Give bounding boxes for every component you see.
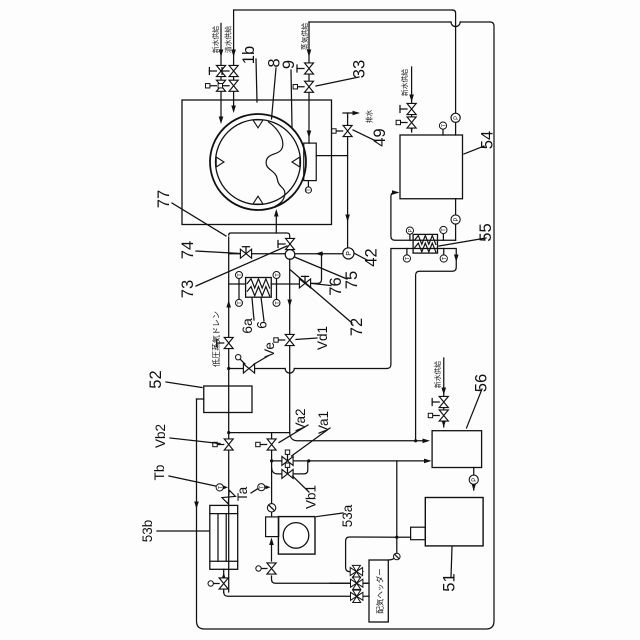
flow arrow into tank54 (409, 125, 414, 133)
wire water supply column 1 y221 (220, 23, 222, 121)
valve Vb2 (motor) (224, 439, 233, 450)
svg-text:排水: 排水 (365, 110, 374, 124)
wire condensate top line x630 (234, 9, 453, 11)
wire exchanger 55 hot pass x399.7 (391, 193, 456, 241)
exchanger 55 sensor SW (443, 249, 445, 256)
wire branch to header valve1 (346, 537, 397, 572)
flow arrow up main drop (315, 251, 323, 256)
enclosure box 77 around turbine (182, 100, 332, 225)
wire exchanger-6 branch x356 (229, 283, 246, 285)
wire pump suction line y271.6 (271, 433, 273, 517)
flow arrow into boiler (471, 484, 476, 492)
svg-text:Va2: Va2 (293, 408, 308, 431)
wire boiler feed from 56 y473.75 (473, 468, 475, 491)
53b tube upper (217, 514, 219, 562)
wire low pressure drain x271.5 with valve Ve (229, 368, 285, 370)
svg-text:52: 52 (147, 370, 165, 388)
wire drain to 56 line1 x199.2 (290, 433, 428, 441)
turbine vane triangle east (253, 120, 263, 128)
svg-text:P: P (346, 251, 353, 256)
svg-text:Vb2: Vb2 (153, 424, 168, 448)
header valve 1 double (350, 568, 362, 576)
wire boiler steam branch y396.8 (396, 461, 398, 553)
instrument P on boiler feed line (451, 113, 460, 122)
exchanger 6 sensor T inlet-north (238, 279, 240, 284)
flow arrow out of 53b (221, 572, 226, 580)
tank 54 (400, 135, 463, 199)
valve Vb1 (motor) (282, 469, 293, 478)
flow arrow bottom pass exit (454, 255, 459, 263)
exchanger 6 zigzag coil (247, 287, 269, 296)
pump 53a body (278, 517, 315, 555)
junction loop into line1 (414, 439, 417, 442)
svg-text:清水供給: 清水供給 (224, 26, 233, 53)
wire tank54 bottom drain y455.6 with P (455, 199, 457, 215)
tank 56 (432, 431, 482, 468)
flow arrow water col2 (231, 106, 236, 114)
flow arrow into tank 54 (392, 190, 400, 195)
wire main-loop left/bottom/right frame (197, 22, 495, 629)
53b tube sheet west (210, 560, 238, 562)
valve 76 (299, 279, 310, 288)
sensor Ta (258, 484, 265, 491)
wire pump discharge to header leg (271, 541, 273, 561)
turbine inner circle (216, 120, 301, 205)
tank 52 (204, 386, 252, 413)
steam chest rectangle on turbine (304, 143, 317, 181)
exchanger 55 sensor NE (409, 234, 411, 240)
header box 配気ヘッダー (369, 560, 388, 622)
instrument P 42 (343, 248, 354, 259)
wire steam supply top line y309 (308, 22, 310, 143)
flow arrow line2 into 56 (424, 459, 432, 464)
flow arrow into turbine bottom (274, 209, 279, 217)
turbine outer circle (210, 114, 306, 210)
junction pump line / line2 (270, 459, 273, 462)
svg-text:72: 72 (348, 318, 366, 336)
instrument T tank54 (442, 129, 444, 135)
heat exchanger 53b shell (210, 505, 238, 569)
wire condensate manifold header y228.7 (228, 237, 230, 592)
flow meter circle (267, 504, 275, 512)
valve 53b outlet (gauge) (219, 578, 228, 589)
junction Va2 feed top (227, 431, 230, 434)
svg-text:Va1: Va1 (316, 411, 331, 434)
svg-text:74: 74 (179, 241, 197, 259)
svg-text:77: 77 (155, 190, 173, 208)
valve 54-supply lower (motor) (407, 117, 416, 128)
flow arrow steam supply (307, 50, 312, 58)
svg-text:54: 54 (479, 131, 497, 149)
valve 49 (motor) (343, 125, 352, 136)
svg-text:蒸気供給: 蒸気供給 (300, 23, 309, 50)
flow arrow water col56 (441, 388, 446, 396)
flow arrow toward P42 (345, 215, 350, 223)
valve on manifold line (224, 337, 233, 348)
svg-text:新水供給: 新水供給 (433, 361, 442, 388)
boiler 51 (425, 498, 483, 546)
svg-text:75: 75 (343, 271, 361, 289)
wire tank52 to frame stub (197, 398, 204, 400)
pump 53a impeller circle (283, 523, 309, 549)
svg-text:P: P (408, 228, 414, 232)
53b tube lower (225, 514, 227, 562)
svg-text:51: 51 (441, 573, 459, 591)
wire drain outlet stub (343, 112, 357, 114)
junction boiler branch (395, 536, 398, 539)
instrument P boiler feed (469, 475, 478, 484)
svg-text:P: P (472, 478, 478, 482)
wire condensate main drop x386.3 (229, 253, 286, 255)
svg-text:49: 49 (371, 128, 389, 146)
junction line2 / boiler branch (307, 459, 310, 462)
svg-text:42: 42 (363, 248, 381, 266)
svg-text:P: P (454, 217, 460, 221)
valve water col2 lower (motor) (229, 80, 238, 91)
svg-text:Ta: Ta (235, 486, 250, 501)
valve Va1 (motor) (282, 456, 293, 465)
wire water supply to 56 y443.75 (443, 358, 445, 427)
junction drain top (227, 367, 230, 370)
flow arrow into header v1 (357, 569, 365, 574)
svg-text:6a: 6a (239, 318, 255, 334)
restrictor circle (394, 553, 401, 560)
svg-text:73: 73 (179, 280, 197, 298)
exchanger 6 sensor T inlet-south (238, 284, 240, 299)
svg-text:新水供給: 新水供給 (211, 26, 220, 53)
wire header leg 3 from 53b (224, 592, 369, 596)
steam trap circle 75 (285, 250, 295, 260)
turbine vane triangle west (253, 196, 263, 204)
flow arrow drain outlet (353, 111, 361, 116)
svg-text:9: 9 (280, 60, 298, 69)
flow arrow into pump flange (269, 538, 274, 546)
wire drain line y347.6 with valve 49 to P 42 (347, 117, 349, 248)
valve 74 (240, 249, 251, 258)
exchanger 6 sensor T outlet-north (276, 279, 278, 284)
svg-text:低圧蒸気ドレン: 低圧蒸気ドレン (211, 311, 221, 367)
wire feed line2 x179.1 (272, 460, 429, 462)
svg-text:53a: 53a (340, 504, 355, 527)
water level wavy line 8 (266, 122, 285, 207)
wire Vb1 bypass loop (272, 461, 308, 474)
flow arrow on Vd1 line (287, 300, 292, 308)
exchanger 55 zigzag coil (415, 243, 436, 252)
wire 76 to main drop y321.5 (311, 254, 322, 284)
svg-text:配気ヘッダー: 配気ヘッダー (374, 568, 384, 614)
valve pump discharge (gauge) (267, 563, 276, 574)
junction main drop / 76 line (320, 252, 323, 255)
heat exchanger 6 body (246, 278, 272, 298)
wire branch into burner (397, 536, 411, 538)
svg-text:P: P (454, 116, 460, 120)
header valve 2 double (351, 579, 363, 587)
pipe hop frame under boiler-feed line (451, 22, 460, 27)
svg-text:1b: 1b (240, 46, 258, 64)
valve Ve (243, 364, 254, 373)
svg-text:6: 6 (254, 321, 270, 329)
valve water col1 upper (216, 65, 225, 76)
valve 54-supply upper (407, 103, 416, 114)
flow arrow into 56 (441, 420, 446, 428)
instrument P tank54 drain (451, 215, 460, 224)
wire curve restrictor to header (388, 559, 394, 561)
header valve 3 double (351, 592, 363, 600)
heat exchanger 55 body (413, 234, 437, 253)
wire Vd1 line y289.7 (289, 259, 291, 433)
pump suction flange (266, 517, 279, 537)
valve 73 on manifold leg (286, 238, 295, 249)
turbine vane triangle north (216, 157, 224, 167)
wire drain east leg to exchanger 55 bottom pass (387, 249, 456, 441)
valve 45deg before 53b (222, 490, 236, 504)
pipe hop drain under Vd1 line (285, 369, 294, 374)
manifold corner to leg x407 (229, 233, 290, 244)
valve 56-supply lower (motor) (439, 410, 448, 421)
flow arrow water col1 upper (219, 50, 224, 58)
wire Va2 feed branch x207.4 (229, 432, 290, 434)
wire water supply to 54 y411.6 (411, 67, 413, 132)
wire turbine bottom feed y276.3 (275, 212, 277, 233)
svg-text:76: 76 (327, 277, 345, 295)
svg-text:33: 33 (351, 60, 369, 78)
valve 33 steam-supply lower (motor) (305, 81, 314, 92)
wire 53b outlet y223.7 (223, 569, 225, 592)
valve water col2 upper (229, 65, 238, 76)
flow arrow on frame toward west (194, 502, 199, 510)
exchanger 6 sensor T outlet-south (276, 284, 278, 299)
valve Vd1 (motor) (285, 334, 294, 345)
valve 56-supply upper (439, 396, 448, 407)
instrument T below steam chest (307, 181, 309, 187)
flow arrow into manifold from turbine drain (226, 300, 231, 308)
exchanger 55 sensor NW (406, 249, 408, 256)
wire water supply column 2 y233.6 (233, 10, 235, 110)
wire steam-chest drain x484.4 (316, 155, 347, 157)
valve Va2 (motor) (267, 439, 276, 450)
flow arrow water col2 upper (231, 50, 236, 58)
burner box (411, 527, 426, 540)
valve water col1 lower (motor) (216, 80, 225, 91)
svg-text:新水供給: 新水供給 (400, 69, 409, 96)
svg-text:Ve: Ve (262, 342, 277, 358)
53b tube sheet east (210, 513, 238, 515)
wire header leg 2 (330, 582, 369, 584)
flow arrow steam into chest (307, 131, 312, 139)
flow arrow line1 into 56 (423, 439, 431, 444)
sensor Tb (216, 484, 223, 491)
exchanger 55 sensor SE (442, 234, 444, 241)
flow arrow water col54 (409, 95, 414, 103)
valve steam-supply upper (305, 63, 314, 74)
svg-text:Tb: Tb (152, 465, 167, 481)
svg-text:53b: 53b (140, 520, 155, 543)
flow arrow water col1 (219, 117, 224, 125)
turbine vane triangle south (292, 157, 300, 167)
